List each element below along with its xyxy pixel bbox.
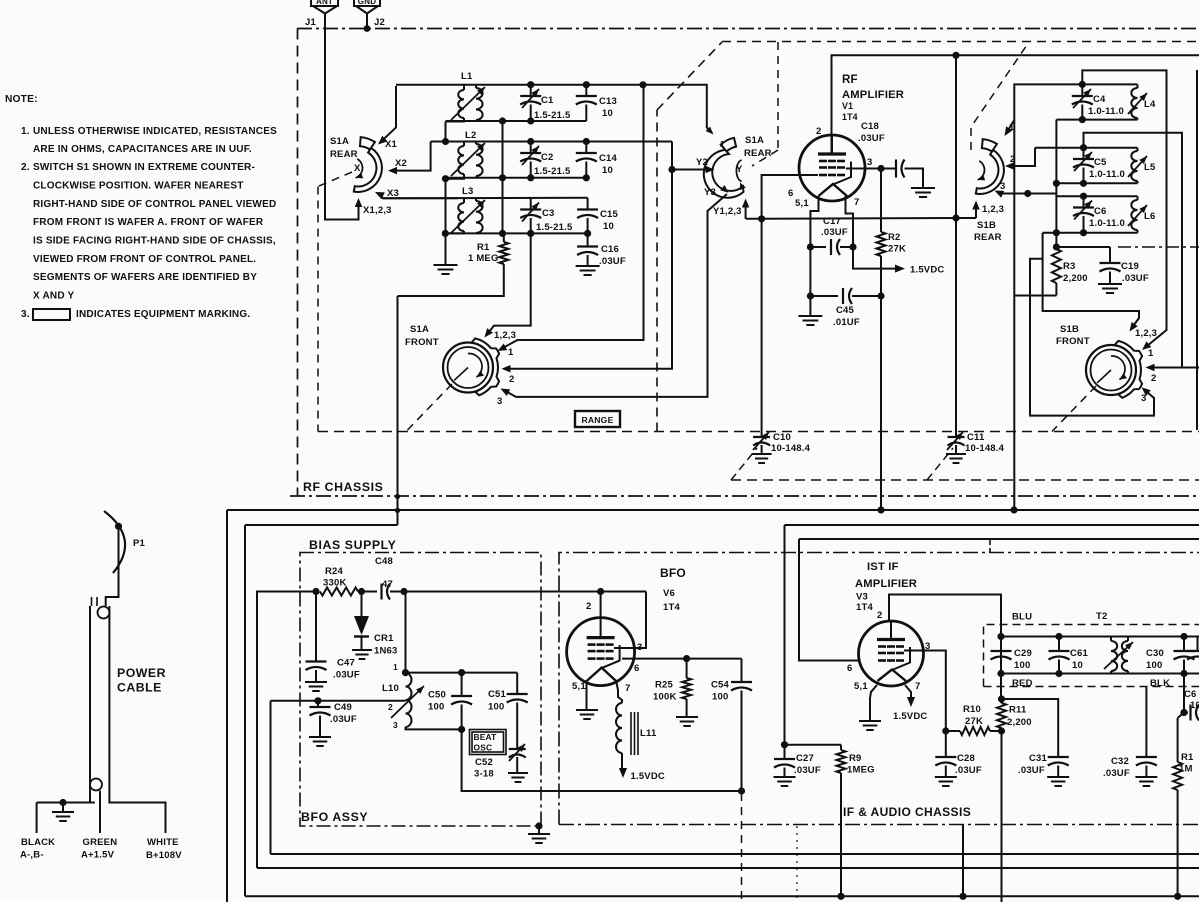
RF chassis bottom dash-dot boundary (290, 495, 1199, 497)
svg-text:C4: C4 (1093, 94, 1106, 105)
svg-text:S1A: S1A (410, 324, 429, 335)
wire L10 tap1 rail (406, 672, 518, 674)
wire V3 pin7 1.5VDC (893, 685, 927, 722)
svg-text:7: 7 (625, 683, 630, 694)
inductor L5 (1128, 148, 1156, 184)
IF chassis dash-dot boundary (559, 553, 1199, 825)
svg-text:1.0-11.0: 1.0-11.0 (1088, 106, 1124, 117)
capacitor C14 (576, 142, 618, 178)
tube V6 1T4 (567, 601, 643, 694)
junction dot C63 (1180, 709, 1187, 716)
svg-text:S1A: S1A (745, 135, 764, 146)
svg-text:1,2,3: 1,2,3 (1135, 328, 1157, 339)
svg-text:1.5VDC: 1.5VDC (893, 711, 927, 722)
svg-text:INDICATES EQUIPMENT MARKING.: INDICATES EQUIPMENT MARKING. (76, 309, 250, 320)
junction dots C61 (1055, 633, 1062, 640)
switch S1A wafer Y rear (704, 135, 772, 198)
svg-text:1T4: 1T4 (856, 602, 873, 613)
svg-text:1.0-11.0: 1.0-11.0 (1089, 218, 1125, 229)
wire S1B common to x956 (956, 217, 976, 219)
svg-text:C32: C32 (1111, 756, 1129, 767)
svg-text:R10: R10 (963, 704, 981, 715)
capacitor C52 (variable) (474, 744, 526, 780)
svg-text:BEAT: BEAT (474, 732, 498, 742)
svg-text:3: 3 (867, 157, 872, 168)
svg-text:X1,2,3: X1,2,3 (363, 205, 392, 216)
capacitor C6 (variable) (1073, 196, 1125, 233)
capacitor C4 (variable) (1072, 84, 1124, 119)
resistor R11 2,200 (997, 703, 1032, 728)
capacitor C18 (858, 121, 923, 188)
svg-text:C49: C49 (334, 702, 352, 713)
junction dot C49 (314, 697, 321, 704)
wire C30 down (1183, 674, 1185, 713)
wire V1 pin3 out (846, 168, 895, 170)
inductor L10 (tapped) (382, 662, 424, 730)
svg-text:2,200: 2,200 (1063, 273, 1088, 284)
svg-text:POWER: POWER (117, 666, 166, 680)
svg-text:UNLESS OTHERWISE INDICATED, RE: UNLESS OTHERWISE INDICATED, RESISTANCES (33, 126, 277, 137)
wire tank5 bottom rail (1056, 182, 1137, 184)
svg-text:1.5-21.5: 1.5-21.5 (536, 222, 573, 233)
gang tuning dashed line (318, 431, 1199, 433)
svg-text:100: 100 (428, 702, 444, 713)
svg-text:C3: C3 (542, 208, 555, 219)
svg-text:CABLE: CABLE (117, 681, 162, 695)
svg-text:X: X (354, 163, 361, 174)
svg-text:100: 100 (1014, 660, 1030, 671)
wire bus A (y525) (245, 525, 398, 896)
wire tank1 to Y1 contact (706, 85, 725, 149)
svg-text:R2: R2 (888, 232, 901, 243)
svg-text:1,2,3: 1,2,3 (494, 330, 516, 341)
equipment-marking box ANT (311, 0, 338, 6)
capacitor C1 (variable) (520, 85, 571, 121)
svg-text:10: 10 (1072, 660, 1083, 671)
ground C31 (1047, 776, 1069, 778)
junction dots tank3 (442, 230, 449, 237)
wire V6 pin3 (614, 592, 646, 649)
svg-text:2: 2 (586, 601, 591, 612)
svg-text:100K: 100K (653, 692, 677, 703)
wire C27 to R9 (785, 744, 842, 746)
junction dots C45 (807, 292, 814, 299)
S1B rotor dashed link (971, 42, 1029, 150)
svg-text:J2: J2 (374, 17, 385, 28)
rotor dashed link S1A-X (318, 172, 352, 187)
wire mid vertical x502 (502, 121, 504, 233)
IF chassis bottom dash-dot (559, 824, 1199, 826)
svg-text:GREEN: GREEN (83, 837, 118, 848)
capacitor C30 (1146, 637, 1195, 674)
junction dot C54 bottom (738, 787, 745, 794)
wire contact X3 / rail 3 left (375, 188, 458, 199)
wire bus B+ (y510) (227, 510, 1199, 902)
jack J2 (356, 0, 385, 29)
capacitor C2 (variable) (520, 142, 571, 178)
resistor R15 1MEG (1173, 713, 1194, 897)
junction dots C5 (1080, 144, 1087, 151)
junction dot L10 tap1 (402, 669, 409, 676)
wire S1A front contact 2 (502, 142, 673, 386)
gang tuning dashed line lower (731, 479, 1199, 481)
svg-text:C5: C5 (1094, 157, 1107, 168)
wire L10 tap3 (406, 727, 462, 729)
capacitor C61 (1049, 637, 1089, 674)
wire R11 down (1001, 728, 1003, 902)
dashed link C11 (927, 448, 953, 480)
junction dots tank2 (442, 138, 449, 145)
junction dots x1056 (1053, 229, 1060, 236)
svg-text:C18: C18 (861, 121, 879, 132)
dashed partition x797 (796, 826, 798, 902)
wire V3 pin3 (904, 651, 946, 732)
svg-text:BLK: BLK (1150, 678, 1170, 689)
wire bottom bus 2 (y868) (257, 591, 1199, 869)
wire tank5 loop top (1084, 133, 1183, 371)
junction dot tank5 left (1053, 180, 1060, 187)
capacitor C45 (810, 288, 881, 328)
switch S1B rear (974, 139, 1004, 243)
svg-text:BFO ASSY: BFO ASSY (301, 810, 368, 824)
wire contact Y2 (672, 157, 715, 173)
svg-text:ANT: ANT (316, 0, 333, 6)
svg-text:3: 3 (393, 720, 398, 730)
junction dot C1 bottom (527, 117, 534, 124)
ground BFO box (535, 822, 542, 829)
svg-text:L2: L2 (465, 130, 477, 141)
power cable (90, 597, 166, 791)
junction dot R10 right (998, 727, 1005, 734)
wire cable green lead (99, 791, 101, 833)
svg-text:3: 3 (1141, 393, 1146, 404)
junction dot R15 bus (1174, 893, 1181, 900)
svg-text:100: 100 (1146, 660, 1162, 671)
svg-text:1.0-11.0: 1.0-11.0 (1089, 169, 1125, 180)
ground C47 (305, 681, 327, 683)
svg-text:7: 7 (854, 197, 859, 208)
wire tank1 bottom rail (446, 120, 587, 122)
svg-text:C29: C29 (1014, 648, 1032, 659)
svg-text:6: 6 (788, 188, 793, 199)
svg-text:Y2: Y2 (696, 157, 708, 168)
svg-text:100: 100 (488, 702, 504, 713)
svg-text:FRONT: FRONT (405, 337, 439, 348)
svg-text:WHITE: WHITE (147, 837, 179, 848)
junction dot bus B+ x881 (877, 506, 884, 513)
svg-text:1.5VDC: 1.5VDC (910, 265, 944, 276)
svg-text:C14: C14 (599, 153, 618, 164)
wire S1B rear common (972, 201, 1004, 219)
svg-text:C11: C11 (967, 432, 985, 443)
junction dot R24 left (312, 588, 319, 595)
svg-text:RF: RF (842, 74, 858, 86)
ground C52 (508, 772, 528, 774)
svg-text:.03UF: .03UF (599, 256, 626, 267)
svg-text:1 MEG: 1 MEG (468, 253, 499, 264)
wire contact X2 (388, 142, 431, 175)
wire tank5 top stub (1035, 147, 1138, 149)
svg-text:S1B: S1B (1060, 324, 1079, 335)
svg-text:C19: C19 (1121, 261, 1139, 272)
svg-text:C6: C6 (1094, 206, 1107, 217)
junction dot R9 bus (837, 893, 844, 900)
jack J1 (305, 0, 337, 28)
svg-text:1.5-21.5: 1.5-21.5 (534, 110, 571, 121)
svg-text:2.: 2. (21, 162, 30, 173)
junction dot R10 left (942, 727, 949, 734)
svg-text:C30: C30 (1146, 648, 1164, 659)
wire V1 pin 5,1 (810, 196, 818, 247)
svg-text:L3: L3 (462, 186, 474, 197)
equipment-marking box BEAT OSC (470, 730, 507, 755)
svg-text:R11: R11 (1009, 705, 1027, 716)
ground tank coils (445, 263, 447, 265)
svg-text:3-18: 3-18 (474, 769, 494, 780)
svg-text:J1: J1 (305, 17, 316, 28)
svg-text:2,200: 2,200 (1007, 717, 1032, 728)
BFO ASSY dash-dot box (300, 553, 541, 827)
inductor L1 (446, 71, 486, 122)
junction dots C30 (1180, 633, 1187, 640)
wire V3 grid left (799, 539, 860, 661)
svg-text:CR1: CR1 (374, 633, 394, 644)
svg-text:.03UF: .03UF (1018, 765, 1045, 776)
svg-text:27K: 27K (965, 716, 983, 727)
junction dot R11 top (998, 695, 1005, 702)
wire tank6 bottom rail (1043, 232, 1138, 234)
svg-text:.03UF: .03UF (1122, 273, 1149, 284)
capacitor right edge (1187, 637, 1199, 660)
svg-text:C15: C15 (600, 209, 619, 220)
svg-text:ARE IN OHMS, CAPACITANCES ARE: ARE IN OHMS, CAPACITANCES ARE IN UUF. (33, 144, 252, 155)
svg-text:C61: C61 (1070, 648, 1089, 659)
RF chassis left dashed boundary (297, 29, 299, 497)
wire V3 pin 5,1 (870, 685, 877, 698)
junction dot pin2 line (952, 52, 959, 59)
svg-text:.03UF: .03UF (333, 670, 360, 681)
wire tank3 top rail (383, 197, 588, 200)
svg-text:6: 6 (847, 663, 852, 674)
wire S1B-3 contact path (1030, 259, 1154, 416)
junction dot Y2 (668, 166, 675, 173)
ground C16 (576, 265, 600, 267)
svg-text:C47: C47 (337, 658, 355, 669)
svg-text:BIAS SUPPLY: BIAS SUPPLY (309, 538, 396, 552)
wire S1B-2 right stub (1182, 367, 1199, 369)
wire V6 pin 5,1 (586, 680, 588, 697)
svg-text:T2: T2 (1096, 611, 1108, 622)
svg-text:X2: X2 (395, 158, 407, 169)
capacitor C48 (362, 556, 405, 600)
junction dot x397 bus (395, 494, 400, 499)
capacitor C15 (577, 198, 618, 234)
svg-text:BLU: BLU (1012, 612, 1032, 623)
svg-text:C6: C6 (1184, 689, 1197, 700)
capacitor C17 (810, 216, 853, 255)
resistor R10 27K (946, 704, 1002, 735)
equipment-marking box GND (354, 0, 380, 6)
svg-text:3.: 3. (21, 309, 30, 320)
svg-text:C45: C45 (836, 305, 855, 316)
svg-text:SWITCH S1 SHOWN IN EXTREME COU: SWITCH S1 SHOWN IN EXTREME COUNTER- (33, 162, 255, 173)
svg-text:.03UF: .03UF (330, 714, 357, 725)
svg-text:R1: R1 (477, 242, 490, 253)
capacitor C11 (variable) (946, 430, 1005, 463)
svg-text:A-,B-: A-,B- (20, 850, 44, 861)
capacitor C31 (1018, 753, 1069, 777)
wire P1 to cable (106, 526, 119, 606)
svg-text:C48: C48 (375, 556, 393, 567)
svg-text:P1: P1 (133, 538, 146, 549)
wire tank6 top rail (1056, 195, 1138, 197)
junction dot R24 right (358, 588, 365, 595)
svg-text:SEGMENTS OF WAFERS ARE IDENTIF: SEGMENTS OF WAFERS ARE IDENTIFIED BY (33, 272, 257, 283)
junction dot Y123 bus (758, 215, 765, 222)
wire plate line down to C11 (955, 55, 957, 430)
wire tank1 top rail (396, 84, 706, 86)
svg-text:V6: V6 (663, 588, 675, 599)
wire 1.5VDC V1 (853, 247, 944, 276)
wire common tank vertical x1056 (1055, 120, 1057, 249)
wire T2 bottom rail (1001, 673, 1199, 675)
notes text block (5, 94, 277, 320)
junction dot V1 pin3 (877, 165, 884, 172)
svg-text:NOTE:: NOTE: (5, 94, 38, 105)
inductor L11 (616, 703, 657, 755)
svg-text:2: 2 (816, 126, 821, 137)
svg-text:REAR: REAR (974, 232, 1002, 243)
svg-text:RIGHT-HAND SIDE OF CONTROL PAN: RIGHT-HAND SIDE OF CONTROL PANEL VIEWED (33, 199, 276, 210)
svg-text:R24: R24 (325, 566, 344, 577)
junction dot R25 top (683, 655, 690, 662)
svg-text:C54: C54 (711, 680, 730, 691)
wire mid vertical x445 to ground (445, 179, 447, 263)
svg-text:S1B: S1B (977, 220, 996, 231)
capacitor C32 (1103, 687, 1157, 780)
svg-text:V1: V1 (842, 101, 853, 111)
ground power cable (62, 803, 64, 813)
capacitor C50 (428, 673, 472, 730)
inductor L3 (445, 186, 485, 233)
svg-text:1.: 1. (21, 126, 30, 137)
ground C32 (1135, 776, 1157, 778)
svg-text:1.5-21.5: 1.5-21.5 (534, 166, 571, 177)
wire C17 left to ground (809, 247, 811, 316)
svg-text:1: 1 (508, 347, 514, 358)
capacitor C5 (variable) (1073, 148, 1125, 184)
diode CR1 1N63 (354, 592, 398, 657)
svg-text:REAR: REAR (330, 149, 358, 160)
wire contact S1B-2 (1005, 148, 1035, 170)
svg-text:2: 2 (1151, 373, 1156, 384)
wire C50 bottom down-right (462, 729, 742, 791)
ground R25 (676, 716, 698, 718)
junction dots C4 (1079, 81, 1086, 88)
junction dot S1B-3 wire (1024, 190, 1031, 197)
plug P1 (104, 511, 146, 573)
switch S1B front (1056, 324, 1157, 404)
junction dots C6 (1080, 193, 1087, 200)
wire Y common 1,2,3 (713, 199, 749, 219)
wire bias bus to BFO (404, 591, 646, 593)
wire cable white lead (109, 791, 165, 833)
wire tank6 to S1B front common (1043, 233, 1139, 332)
wire V6 pin7 to L11 (616, 680, 622, 703)
junction dots C29 (997, 633, 1004, 640)
ground C49 (309, 736, 331, 738)
resistor R1 1MEG (398, 233, 509, 296)
ground V3 5,1 (869, 698, 871, 721)
svg-text:R9: R9 (849, 753, 862, 764)
svg-text:L11: L11 (640, 728, 657, 739)
capacitor C19 (1100, 247, 1149, 284)
svg-text:3: 3 (497, 396, 502, 407)
wire V1 pin 7 (846, 196, 854, 247)
wire L10 tap2 / C49 feed (271, 700, 406, 702)
wire bus A down to C27 (784, 525, 786, 745)
svg-text:R3: R3 (1063, 261, 1076, 272)
dashed partition x741 (741, 793, 743, 902)
ground C27 (774, 776, 796, 778)
wire Y123 to filament bus (746, 217, 956, 220)
svg-text:2: 2 (877, 610, 882, 621)
wire V3 pin2 to T2 (889, 595, 1001, 637)
resistor R24 330K (320, 566, 358, 596)
svg-text:100: 100 (712, 692, 728, 703)
wire right edge vertical (1196, 70, 1198, 430)
dash-dot link right (1118, 246, 1199, 248)
svg-text:L1: L1 (461, 71, 473, 82)
wire T2 primary down (1000, 637, 1002, 704)
ground V6 5,1 (586, 697, 588, 710)
svg-text:.03UF: .03UF (858, 133, 885, 144)
svg-text:C27: C27 (796, 753, 814, 764)
wire tank4 bottom rail (1056, 119, 1137, 121)
junction dot black ground (59, 799, 66, 806)
svg-text:RANGE: RANGE (581, 415, 613, 425)
capacitor C13 (576, 85, 617, 121)
svg-text:GND: GND (358, 0, 376, 6)
capacitor C28 (935, 731, 982, 777)
svg-text:7: 7 (915, 681, 920, 692)
svg-text:R25: R25 (655, 680, 674, 691)
svg-text:A+1.5V: A+1.5V (81, 850, 115, 861)
junction dot x963 bus (959, 893, 966, 900)
svg-text:1: 1 (393, 662, 398, 672)
svg-text:S1A: S1A (330, 136, 349, 147)
capacitor C27 (774, 745, 821, 777)
svg-text:C16: C16 (601, 244, 619, 255)
wire tank3 bottom rail (445, 232, 587, 234)
wire L1 left tap down (445, 122, 447, 143)
wire bottom bus 1 (y854) (271, 701, 1199, 854)
svg-text:27K: 27K (888, 244, 906, 255)
svg-text:C13: C13 (599, 96, 617, 107)
wire J1 to S1A common (325, 17, 362, 220)
resistor R9 1MEG (837, 745, 875, 897)
wire L11 to 1.5VDC (619, 753, 665, 782)
ground C19 (1098, 283, 1122, 285)
inductor L2 (446, 130, 486, 179)
svg-text:1: 1 (1148, 348, 1154, 359)
svg-text:V3: V3 (856, 592, 868, 603)
wire bottom bus 3 (y896) (245, 895, 1199, 897)
svg-text:C10: C10 (773, 432, 791, 443)
svg-text:C28: C28 (957, 753, 975, 764)
svg-text:1N63: 1N63 (374, 646, 398, 657)
capacitor C3 (variable) (520, 198, 573, 233)
